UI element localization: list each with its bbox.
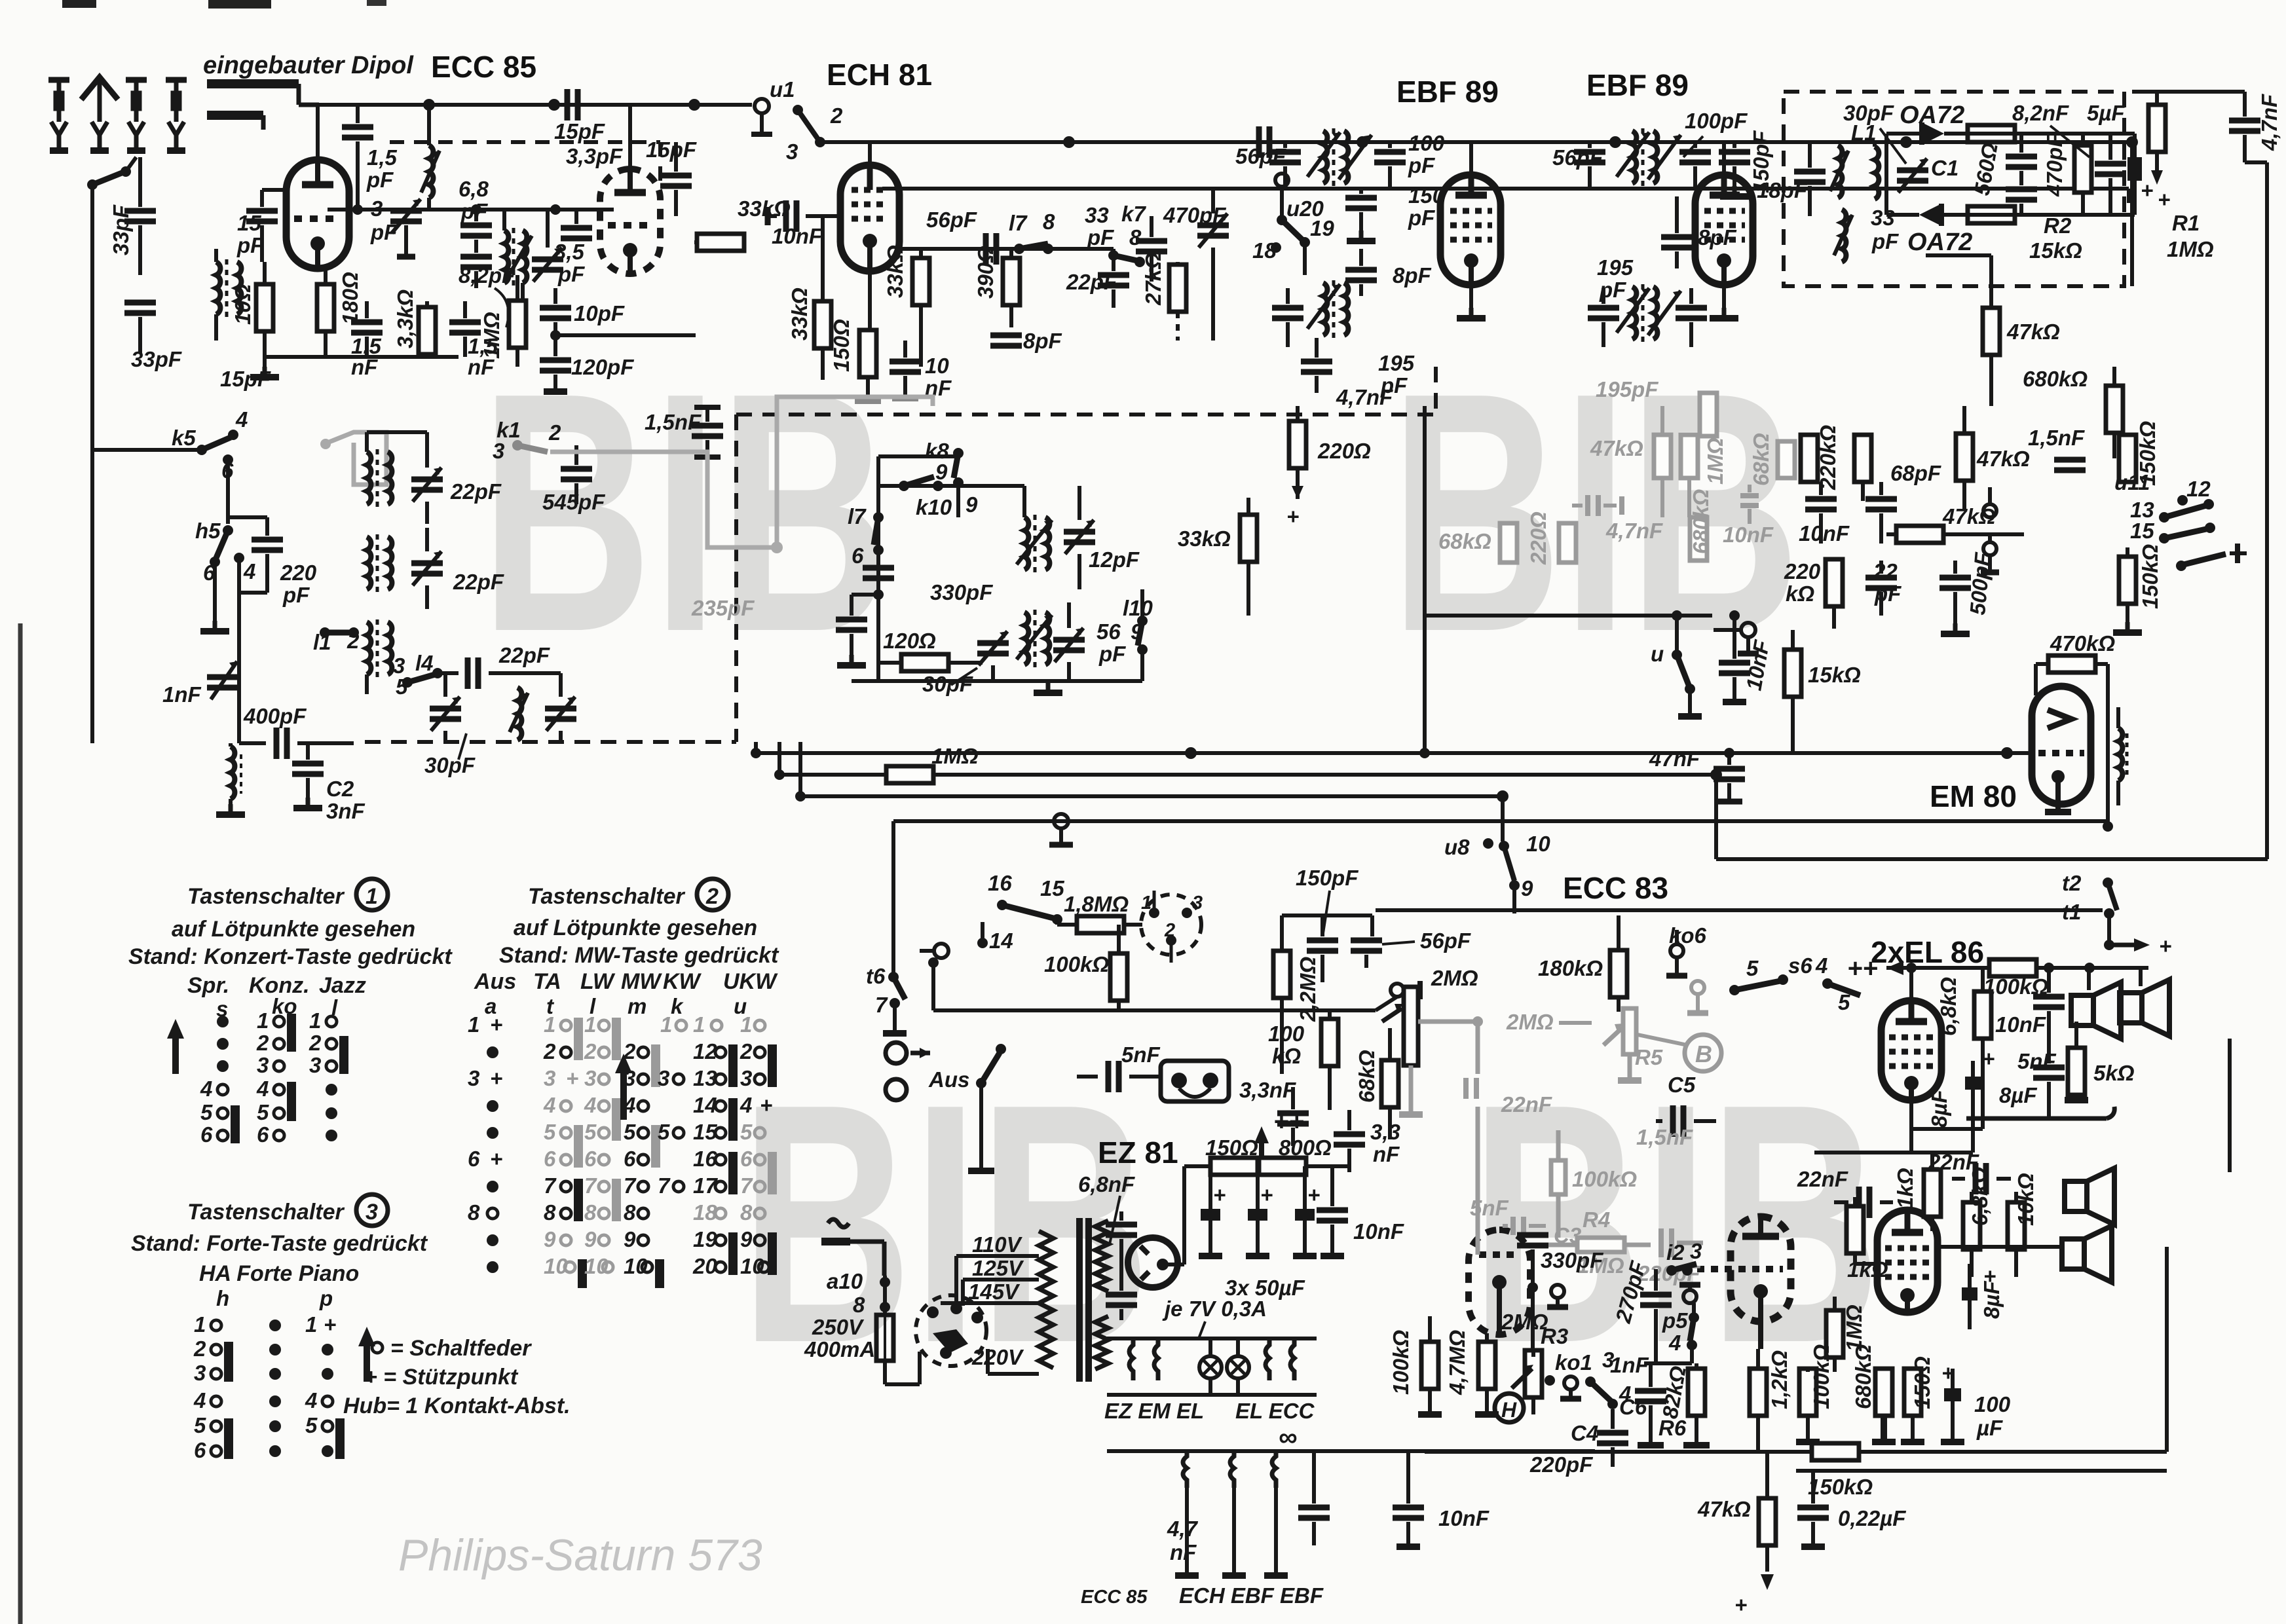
svg-text:195: 195 xyxy=(1597,255,1634,280)
svg-text:8: 8 xyxy=(468,1200,480,1225)
svg-text:47kΩ: 47kΩ xyxy=(2006,320,2060,344)
transformer heater secondary xyxy=(1095,1316,1108,1369)
svg-text:8µF: 8µF xyxy=(1927,1090,1951,1128)
svg-text:C6: C6 xyxy=(1619,1395,1647,1419)
contact circle above B xyxy=(1687,981,1708,1013)
svg-text:33pF: 33pF xyxy=(109,204,133,255)
svg-text:18pF: 18pF xyxy=(1757,178,1808,202)
svg-text:ECC 83: ECC 83 xyxy=(1563,871,1668,905)
svg-text:1kΩ: 1kΩ xyxy=(1893,1168,1917,1209)
svg-text:2MΩ: 2MΩ xyxy=(1431,966,1478,990)
svg-text:6: 6 xyxy=(852,544,864,568)
label 270pF rotated xyxy=(1611,1258,1672,1363)
resistor 1k EL86a xyxy=(1893,1153,1941,1231)
svg-text:10: 10 xyxy=(740,1254,764,1278)
wire detector center tap xyxy=(1886,134,1991,308)
svg-text:18: 18 xyxy=(1252,238,1277,263)
svg-text:10nF: 10nF xyxy=(772,224,823,248)
mixer dashed box left xyxy=(734,415,738,742)
svg-text:u8: u8 xyxy=(1444,835,1470,859)
svg-text:7: 7 xyxy=(624,1173,637,1198)
gray junction dot xyxy=(771,542,783,553)
svg-text:4: 4 xyxy=(193,1388,206,1412)
resistor 2,2M xyxy=(1273,951,1320,1074)
capacitor 500pF xyxy=(1939,551,1995,634)
svg-text:+ = Stützpunkt: + = Stützpunkt xyxy=(364,1365,519,1390)
svg-text:6: 6 xyxy=(221,458,234,483)
svg-text:6: 6 xyxy=(584,1147,597,1171)
resistor 1k EL86b xyxy=(1846,1197,1888,1282)
capacitor 1,5pF xyxy=(554,89,605,143)
svg-text:7: 7 xyxy=(658,1173,671,1198)
svg-text:10: 10 xyxy=(925,354,949,378)
capacitor 545pF xyxy=(542,445,605,514)
wire B2 left riser xyxy=(778,742,781,775)
switch l1 2 xyxy=(313,627,360,654)
switch u1 connector xyxy=(751,77,843,164)
svg-text:Spr.: Spr. xyxy=(187,973,229,998)
detector coil 2 xyxy=(1875,142,1879,199)
resistor 15k xyxy=(1784,630,1861,753)
svg-text:3: 3 xyxy=(544,1066,555,1090)
svg-text:2: 2 xyxy=(623,1039,636,1063)
phono jack 1 xyxy=(886,1043,930,1063)
resistor bank 220k black xyxy=(1801,425,1840,490)
svg-text:14: 14 xyxy=(693,1093,717,1117)
svg-text:680kΩ: 680kΩ xyxy=(1689,489,1713,554)
wire detector bottom rail xyxy=(1965,213,2135,217)
resistor 680k inverter xyxy=(1851,1344,1896,1442)
switch k5 xyxy=(92,407,248,524)
svg-text:180kΩ: 180kΩ xyxy=(1538,956,1603,980)
svg-text:47nF: 47nF xyxy=(1649,747,1700,771)
volume potentiometer 2M xyxy=(1382,966,1478,1115)
heptode ECH81 envelope xyxy=(840,165,899,271)
svg-text:68kΩ: 68kΩ xyxy=(1355,1050,1379,1103)
gray label 2M tone xyxy=(1506,1010,1592,1034)
labels heater row1 xyxy=(1104,1399,1315,1423)
svg-text:9: 9 xyxy=(584,1227,597,1251)
svg-text:10nF: 10nF xyxy=(1723,523,1774,547)
svg-text:+: + xyxy=(1982,1046,1995,1071)
resistor 33k ECH81 right xyxy=(883,245,929,367)
svg-text:EZ EM EL: EZ EM EL xyxy=(1104,1399,1204,1423)
svg-text:6: 6 xyxy=(544,1147,556,1171)
capacitor 100pF T2 right xyxy=(1679,109,1748,190)
svg-text:p: p xyxy=(319,1286,333,1310)
mains plug dashed xyxy=(916,1295,986,1366)
resistor 680k gray rotated xyxy=(1689,489,1713,561)
svg-text:3,3: 3,3 xyxy=(1370,1120,1400,1144)
junction dots on buses xyxy=(423,99,2138,802)
capacitor 22nF right xyxy=(1928,1150,2011,1194)
svg-text:1: 1 xyxy=(660,1012,672,1037)
resistor R4 gray xyxy=(1546,1208,1651,1278)
svg-text:180Ω: 180Ω xyxy=(338,272,362,325)
svg-text:∞: ∞ xyxy=(1279,1423,1298,1452)
mixer dashed box right stub xyxy=(1434,367,1438,415)
svg-text:3: 3 xyxy=(1192,893,1203,913)
svg-text:4,7: 4,7 xyxy=(1167,1517,1199,1541)
gray audio wire from k1 xyxy=(550,397,933,547)
resistor 150k right top xyxy=(2119,421,2160,486)
switch p5 4 xyxy=(1662,1285,1700,1363)
resistor 560 ohm top xyxy=(1968,125,2015,197)
svg-text:8: 8 xyxy=(584,1200,597,1225)
svg-text:56pF: 56pF xyxy=(926,208,977,232)
triode ECC83 second half envelope xyxy=(1683,1217,1791,1349)
svg-text:6,8nF: 6,8nF xyxy=(1078,1172,1135,1196)
svg-text:220V: 220V xyxy=(971,1345,1024,1369)
svg-text:2,2MΩ: 2,2MΩ xyxy=(1296,957,1320,1022)
svg-text:7: 7 xyxy=(740,1173,753,1198)
wire ECC85b grid line xyxy=(328,204,614,215)
svg-text:6: 6 xyxy=(194,1438,206,1462)
svg-text:1MΩ: 1MΩ xyxy=(2167,237,2214,261)
svg-text:eingebauter Dipol: eingebauter Dipol xyxy=(203,52,414,79)
svg-text:1,5nF: 1,5nF xyxy=(1636,1125,1693,1149)
capacitor 6,8nF EZ81 xyxy=(1078,1172,1137,1320)
gray wiper wire xyxy=(1418,1016,1483,1074)
wire grid to tube xyxy=(262,188,286,192)
capacitor 220pF xyxy=(228,517,317,616)
resistor 5k with cap xyxy=(2065,1022,2135,1100)
svg-text:5: 5 xyxy=(544,1120,556,1144)
resistor 47k top right xyxy=(1956,406,2030,509)
svg-text:15: 15 xyxy=(2130,519,2154,543)
svg-text:Aus: Aus xyxy=(928,1067,969,1092)
svg-text:33pF: 33pF xyxy=(131,347,182,371)
svg-text:u11: u11 xyxy=(2114,470,2150,494)
svg-text:22pF: 22pF xyxy=(498,643,550,667)
svg-text:++: ++ xyxy=(1847,954,1878,983)
capacitor 1nF xyxy=(1610,1353,1692,1445)
svg-text:47kΩ: 47kΩ xyxy=(1976,447,2030,471)
pentode EBF89 second envelope xyxy=(1695,175,1753,285)
svg-text:Hub= 1 Kontakt-Abst.: Hub= 1 Kontakt-Abst. xyxy=(343,1393,571,1418)
resistor 120 ohm xyxy=(878,629,983,671)
svg-text:3: 3 xyxy=(584,1066,596,1090)
svg-text:5nF: 5nF xyxy=(1121,1043,1161,1067)
coil to ground left xyxy=(216,743,245,815)
switch t6 7 xyxy=(866,964,907,1033)
legend Schaltfeder xyxy=(372,1342,383,1353)
capacitor C4 220pF xyxy=(1529,1409,1628,1477)
svg-text:68kΩ: 68kΩ xyxy=(1438,529,1491,553)
svg-text:1: 1 xyxy=(693,1012,705,1037)
svg-text:330pF: 330pF xyxy=(930,580,993,604)
heater choke row2 b xyxy=(1222,1451,1246,1576)
svg-text:je 7V 0,3A: je 7V 0,3A xyxy=(1162,1297,1267,1321)
fuse 250V 400mA xyxy=(804,1269,920,1384)
mixer dashed box bottom xyxy=(365,740,736,744)
svg-text:+: + xyxy=(1213,1183,1226,1207)
resistor 10 ohm xyxy=(231,262,279,377)
svg-text:5: 5 xyxy=(194,1413,206,1437)
svg-text:6: 6 xyxy=(740,1147,753,1171)
svg-text:u: u xyxy=(1651,642,1664,666)
svg-text:10nF: 10nF xyxy=(1353,1219,1404,1244)
svg-text:6,8: 6,8 xyxy=(459,177,489,201)
svg-text:pF: pF xyxy=(370,220,398,244)
capacitor 330pF xyxy=(863,568,993,604)
magic eye EM80 envelope xyxy=(2032,686,2091,812)
speaker lower 1 xyxy=(2065,1168,2114,1225)
svg-text:pF: pF xyxy=(236,233,264,257)
resistor 1M on bus B2 xyxy=(886,744,979,783)
svg-text:0,22µF: 0,22µF xyxy=(1838,1506,1906,1530)
capacitor 400pF xyxy=(239,704,354,759)
contact ko6 xyxy=(1666,923,1707,976)
wire grid2 line xyxy=(899,247,1114,251)
mixer dashed box top xyxy=(736,413,1436,416)
label 33pF detector xyxy=(1871,206,1899,253)
resistor 10k splitter xyxy=(2008,1173,2038,1277)
svg-text:1,5nF: 1,5nF xyxy=(645,410,702,434)
svg-text:220Ω: 220Ω xyxy=(1317,439,1371,463)
capacitor 8pF T1 xyxy=(1345,249,1432,296)
resistor 220 gray rotated xyxy=(1526,511,1576,565)
svg-text:100kΩ: 100kΩ xyxy=(1389,1330,1413,1395)
svg-text:4,7nF: 4,7nF xyxy=(1605,519,1663,543)
svg-text:15pF: 15pF xyxy=(220,367,271,391)
diode OA72 top xyxy=(1886,101,1965,145)
capacitor 5nF audio xyxy=(1077,1043,1161,1092)
svg-text:3: 3 xyxy=(658,1066,669,1090)
svg-text:Tastenschalter: Tastenschalter xyxy=(528,884,685,909)
oscillator vertical rail xyxy=(876,456,880,681)
resistor 800 ohm supply xyxy=(1258,1135,1349,1175)
capacitor 4,7nF xyxy=(1301,338,1393,409)
wire EBF89b top to bus xyxy=(1722,142,1726,175)
switch antenna selector xyxy=(87,157,136,190)
transformer voltage taps xyxy=(920,1256,1039,1384)
svg-text:+: + xyxy=(490,1012,502,1037)
capacitor 3,3nF xyxy=(1239,1078,1309,1146)
svg-text:ECH EBF EBF: ECH EBF EBF xyxy=(1179,1583,1324,1608)
wire ECC85b anode up xyxy=(628,105,632,169)
svg-text:4: 4 xyxy=(305,1388,317,1412)
coil k1 area gray xyxy=(320,432,386,485)
resistor 2M stage2 xyxy=(1501,1310,1548,1334)
trimmer 3,5pF xyxy=(532,210,592,286)
wire B1 left riser xyxy=(754,742,758,753)
svg-text:8µF: 8µF xyxy=(1979,1281,2004,1319)
resistor 150k right lower xyxy=(2113,544,2162,633)
IF transformer T2 upper coils xyxy=(1617,128,1681,186)
svg-text:400mA: 400mA xyxy=(804,1337,875,1361)
switch Aus xyxy=(928,1044,1006,1171)
svg-text:220: 220 xyxy=(280,561,317,585)
svg-text:56: 56 xyxy=(1096,619,1121,644)
capacitor C3 330pF xyxy=(1517,1223,1603,1357)
AVC bus B2 xyxy=(779,773,1716,777)
svg-text:1MΩ: 1MΩ xyxy=(931,744,979,768)
svg-text:7: 7 xyxy=(544,1173,557,1198)
svg-text:220pF: 220pF xyxy=(1529,1452,1593,1477)
circled H xyxy=(1495,1393,1524,1422)
svg-text:R2: R2 xyxy=(2044,213,2072,238)
svg-text:14: 14 xyxy=(989,929,1013,953)
wire bottom bus xyxy=(1425,1450,2167,1454)
svg-text:+: + xyxy=(566,1066,578,1090)
svg-text:Jazz: Jazz xyxy=(319,973,366,998)
resistor R1 1M right xyxy=(2148,92,2214,261)
trimmer 30pF xyxy=(424,673,476,777)
svg-text:195pF: 195pF xyxy=(1596,377,1658,401)
output pentode EL86 second envelope xyxy=(1877,1210,1938,1312)
svg-text:10: 10 xyxy=(584,1254,609,1278)
resistor 47k bottom xyxy=(1697,1452,1776,1617)
table 1 arrow xyxy=(172,1029,179,1074)
svg-text:m: m xyxy=(628,994,646,1018)
wire osc top xyxy=(878,454,958,458)
svg-text:390Ω: 390Ω xyxy=(973,246,998,299)
svg-text:i2: i2 xyxy=(1666,1240,1685,1264)
svg-text:9: 9 xyxy=(1521,876,1533,900)
oscillator coil 2 xyxy=(1017,610,1052,667)
svg-text:1: 1 xyxy=(584,1012,596,1037)
svg-text:1nF: 1nF xyxy=(162,682,202,707)
wire line to t2 xyxy=(1231,819,2108,823)
resistor 47k gray bank 1 xyxy=(1590,406,1671,517)
svg-text:OA72: OA72 xyxy=(1900,101,1964,129)
svg-text:EBF 89: EBF 89 xyxy=(1396,75,1499,109)
svg-text:150Ω: 150Ω xyxy=(1205,1135,1258,1160)
heater choke EL xyxy=(1265,1338,1294,1380)
svg-text:kΩ: kΩ xyxy=(1272,1044,1301,1068)
resistor 33k ECC85 out xyxy=(694,196,791,251)
switch k10 xyxy=(878,477,978,519)
svg-text:1: 1 xyxy=(544,1012,555,1037)
switch h5 xyxy=(195,519,255,612)
connector circle left xyxy=(1714,623,1759,654)
wire column down xyxy=(237,616,241,743)
svg-text:100: 100 xyxy=(1974,1392,2011,1416)
AVC bus B3 xyxy=(800,794,1503,798)
label 1,5nF xyxy=(2028,426,2086,470)
circled B gray xyxy=(1638,1035,1721,1071)
capacitor 195pF T2 left xyxy=(1588,255,1634,347)
svg-text:ECC 85: ECC 85 xyxy=(431,50,536,84)
variable capacitor osc 2 xyxy=(1053,602,1126,681)
resistor bank right black xyxy=(1854,435,1871,501)
svg-text:15pF: 15pF xyxy=(554,119,605,143)
svg-text:u1: u1 xyxy=(770,77,795,101)
svg-text:t1: t1 xyxy=(2062,900,2081,924)
svg-text:3: 3 xyxy=(624,1066,635,1090)
junction dots mid xyxy=(1419,610,1740,758)
svg-text:470kΩ: 470kΩ xyxy=(2050,631,2115,655)
svg-text:h5: h5 xyxy=(195,519,221,543)
svg-text:33kΩ: 33kΩ xyxy=(787,287,812,341)
svg-text:220Ω: 220Ω xyxy=(1526,511,1550,565)
speaker pair top 1 xyxy=(2071,982,2121,1039)
cap 10pF / 120pF stack xyxy=(540,288,696,392)
resistor 27k xyxy=(1141,252,1186,341)
svg-text:1MΩ: 1MΩ xyxy=(479,312,504,359)
switch u11 12 13 15 xyxy=(2114,470,2247,571)
svg-text:100: 100 xyxy=(1408,131,1445,155)
svg-text:20: 20 xyxy=(692,1254,717,1278)
svg-text:Stand: Konzert-Taste gedrückt: Stand: Konzert-Taste gedrückt xyxy=(128,944,453,969)
wire top right corner xyxy=(2132,90,2245,94)
wire right top short xyxy=(2127,189,2131,203)
svg-text:1: 1 xyxy=(1141,893,1152,913)
svg-text:1,2kΩ: 1,2kΩ xyxy=(1767,1350,1791,1409)
trimmer coil 4,8pF xyxy=(421,105,492,288)
switch 14 contact xyxy=(920,922,1013,958)
wire second top bus to right xyxy=(882,187,2129,191)
svg-text:auf Lötpunkte gesehen: auf Lötpunkte gesehen xyxy=(172,917,415,942)
svg-text:+: + xyxy=(2159,934,2171,958)
dial lamps xyxy=(1199,1338,1249,1395)
svg-text:100kΩ: 100kΩ xyxy=(1809,1344,1833,1409)
svg-text:5nF: 5nF xyxy=(1470,1196,1509,1220)
capacitor 1,5nF right xyxy=(449,301,498,379)
electrolytic 5uF xyxy=(2087,101,2153,215)
svg-text:9: 9 xyxy=(544,1227,556,1251)
svg-text:3: 3 xyxy=(1690,1239,1702,1263)
svg-text:+: + xyxy=(2158,187,2170,212)
svg-text:pF: pF xyxy=(1098,642,1126,666)
UKW dashed box xyxy=(390,142,660,196)
wire HV out xyxy=(1117,1221,1136,1299)
resistor 560 ohm bottom xyxy=(1968,206,2015,223)
AVC bus B1 xyxy=(756,751,2034,755)
diode OA72 bottom xyxy=(1886,204,1972,256)
svg-text:2: 2 xyxy=(193,1337,206,1361)
svg-text:16: 16 xyxy=(988,871,1012,895)
scan smudge top 2 xyxy=(208,0,271,9)
switch 16 15 xyxy=(988,871,1064,925)
wire right output loop vertical xyxy=(2165,1247,2169,1452)
svg-text:s6: s6 xyxy=(1788,953,1812,978)
svg-text:10pF: 10pF xyxy=(574,301,625,325)
svg-text:7: 7 xyxy=(584,1173,597,1198)
svg-text:R1: R1 xyxy=(2172,211,2200,235)
svg-text:l4: l4 xyxy=(415,651,434,675)
svg-text:3nF: 3nF xyxy=(326,799,365,823)
svg-text:Stand: Forte-Taste gedrückt: Stand: Forte-Taste gedrückt xyxy=(131,1231,428,1256)
svg-text:l10: l10 xyxy=(1123,596,1153,620)
svg-text:680kΩ: 680kΩ xyxy=(2023,367,2088,391)
speaker pair top 2 xyxy=(2120,980,2169,1036)
svg-text:5: 5 xyxy=(584,1120,597,1144)
svg-text:2: 2 xyxy=(584,1039,597,1063)
svg-text:= Schaltfeder: = Schaltfeder xyxy=(390,1336,532,1361)
EBF89b ground xyxy=(1710,284,1738,318)
wire line to t1 xyxy=(1376,908,2103,912)
resistor 1M phase xyxy=(1826,1297,1866,1372)
svg-text:EM 80: EM 80 xyxy=(1930,779,2017,813)
capacitor 22nF left xyxy=(1797,1167,1893,1218)
wire vertical right of detector box xyxy=(2130,142,2134,286)
svg-text:120Ω: 120Ω xyxy=(883,629,936,653)
svg-text:TA: TA xyxy=(533,969,561,994)
capacitor 220pF gray xyxy=(1637,1228,1703,1285)
svg-text:22pF: 22pF xyxy=(453,570,504,594)
triode ECC83 first half (dashed envelope) xyxy=(1469,1230,1530,1335)
potentiometer R3 xyxy=(1512,1324,1568,1414)
left page edge line xyxy=(18,623,23,1624)
svg-text:5: 5 xyxy=(1746,956,1759,980)
capacitor 4,7nF heater xyxy=(1167,1451,1330,1564)
resistor 82k R6 xyxy=(1657,1363,1710,1445)
svg-text:150: 150 xyxy=(1408,183,1445,208)
svg-text:3: 3 xyxy=(365,1200,378,1225)
resistor detector right xyxy=(2074,134,2091,215)
